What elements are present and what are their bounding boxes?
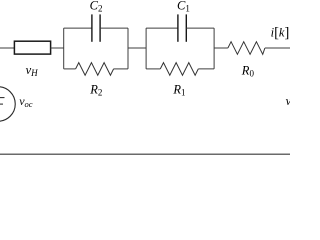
svg-text:R0: R0 [241, 64, 255, 79]
svg-text:R2: R2 [89, 82, 102, 97]
wire block1 top left [64, 27, 92, 29]
wire main left segment [0, 47, 14, 49]
svg-text:C1: C1 [177, 0, 190, 14]
node block1 left vertical [63, 28, 65, 69]
wire block1 bottom left [64, 68, 76, 70]
wire block1 top right [100, 27, 128, 29]
wire block2 bottom right [198, 68, 214, 70]
resistor R2 [76, 63, 114, 76]
voltage source minus mark [0, 103, 3, 105]
voltage source plus mark [0, 97, 5, 99]
wire block2 top left [146, 27, 178, 29]
node block2 left vertical [145, 28, 147, 69]
node block2 right vertical [213, 28, 215, 69]
wire block2 top right [186, 27, 214, 29]
svg-text:vH: vH [26, 63, 39, 78]
wire R0 to right edge [265, 47, 290, 49]
svg-text:R1: R1 [172, 82, 185, 97]
svg-text:voc: voc [19, 94, 33, 109]
wire block2 to R0 [214, 47, 228, 49]
wire bottom rail [0, 153, 290, 155]
node block1 right vertical [127, 28, 129, 69]
wire box to block1 [51, 47, 64, 49]
wire block1 to block2 [128, 47, 146, 49]
wire block2 bottom left [146, 68, 160, 70]
resistor R0 [228, 42, 265, 55]
svg-text:v: v [286, 94, 290, 108]
svg-text:i[k]: i[k] [271, 25, 290, 41]
capacitor C2 [92, 14, 100, 41]
svg-text:C2: C2 [90, 0, 103, 14]
wire block1 bottom right [114, 68, 128, 70]
capacitor C1 [178, 14, 186, 41]
resistor vH box [14, 41, 50, 54]
resistor R1 [160, 63, 198, 76]
voltage source voc circle [0, 87, 15, 122]
